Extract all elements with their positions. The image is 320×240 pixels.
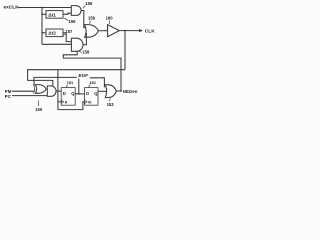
svg-text:155: 155 xyxy=(69,19,77,24)
wire FF2 Q to OR153 xyxy=(98,90,106,92)
flip-flop U152 box xyxy=(85,88,98,106)
wire NEGen feedback: gate158 bottom, U-path, long line y=58, drop to NEGen node xyxy=(63,51,121,91)
svg-text:NEGen: NEGen xyxy=(123,89,138,94)
wire gate150 output to FF1 D xyxy=(56,90,61,92)
svg-text:Δt1: Δt1 xyxy=(48,12,56,17)
wire FF1 Q to FF2 D xyxy=(75,93,84,95)
wire AND158 output to OR159 bottom input xyxy=(83,33,86,44)
svg-text:PC: PC xyxy=(5,94,12,99)
svg-text:exCLK: exCLK xyxy=(4,5,20,11)
svg-text:152: 152 xyxy=(89,80,96,85)
svg-text:156: 156 xyxy=(85,1,93,6)
svg-text:D: D xyxy=(86,91,89,96)
wire PC input xyxy=(12,95,47,97)
junction EGF riser xyxy=(78,93,80,95)
wire CLK feedback long line y=69.7 xyxy=(28,70,125,87)
wire OR159 to buffer xyxy=(98,30,107,32)
clock triangle FF1 xyxy=(61,100,64,103)
svg-text:EGF: EGF xyxy=(78,73,88,78)
wire dt2 input xyxy=(42,32,46,34)
or-gate U153 xyxy=(105,85,116,98)
junction exCLK tap xyxy=(41,7,43,9)
svg-text:Q: Q xyxy=(71,91,75,96)
wire CLK output xyxy=(119,30,139,32)
clock triangle FF2 xyxy=(85,100,88,103)
wire PM input xyxy=(12,90,34,92)
wire dt2 output to AND158 top input xyxy=(63,33,71,42)
xor-gate 150a xyxy=(33,85,34,94)
svg-text:D: D xyxy=(63,91,66,96)
wire FF1 clock stub xyxy=(58,101,61,103)
and-gate U158 xyxy=(71,38,83,51)
junction NEGen xyxy=(120,90,122,92)
arrowhead CLK xyxy=(139,29,143,32)
net EGF wire xyxy=(34,77,77,86)
svg-text:158: 158 xyxy=(82,49,90,54)
and-gate U156 xyxy=(71,6,81,16)
delay box dt2 xyxy=(46,29,63,37)
svg-text:153: 153 xyxy=(107,102,115,107)
wire clock branch to flipflop clocks xyxy=(58,70,85,110)
wire CLK feedback vertical xyxy=(124,31,126,70)
buffer U160 xyxy=(108,25,120,37)
junction dt1 tap xyxy=(41,14,43,16)
flip-flop U151 box xyxy=(61,88,75,106)
svg-text:159: 159 xyxy=(88,16,96,21)
junction CLK feedback xyxy=(124,30,126,32)
or-gate U159 xyxy=(85,25,99,38)
wire AND158 bottom input from tap bus xyxy=(42,43,71,45)
wire AND156 output to OR159 top input xyxy=(81,11,86,28)
svg-text:160: 160 xyxy=(106,16,114,21)
wire dt1 input xyxy=(42,13,46,15)
svg-text:Δt2: Δt2 xyxy=(48,31,56,36)
wire NEGen output xyxy=(116,90,121,92)
wire dt1 output to AND156 xyxy=(63,13,71,14)
svg-text:CLK: CLK xyxy=(145,28,155,34)
wire exCLK horizontal xyxy=(18,7,71,9)
wire EGF to OR153 top input xyxy=(90,78,105,88)
junction dt2 tap xyxy=(41,32,43,34)
wire EGF riser xyxy=(78,79,80,94)
svg-text:151: 151 xyxy=(67,80,74,85)
svg-text:/K: /K xyxy=(88,101,92,105)
delay box dt1 xyxy=(46,11,63,19)
svg-text:150: 150 xyxy=(35,107,43,112)
svg-text:K: K xyxy=(65,101,68,105)
and-gate 150b xyxy=(47,86,56,97)
wire vertical tap bus x=42 xyxy=(41,8,43,45)
